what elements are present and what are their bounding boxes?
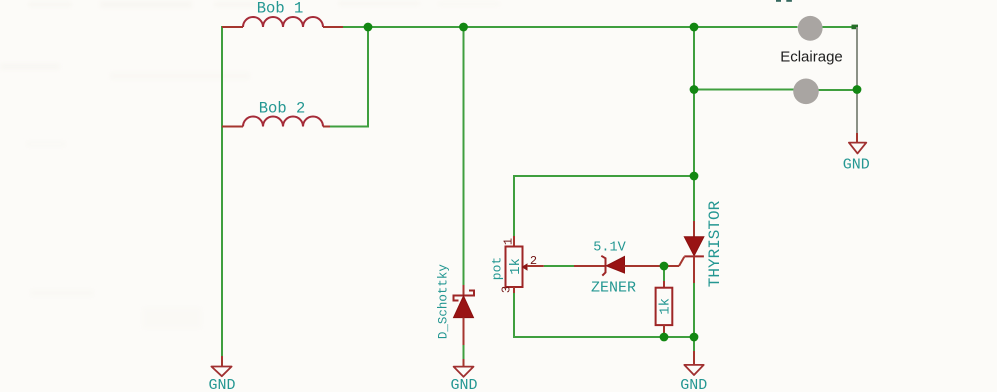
diode D_Schottky pin top (463, 285, 465, 296)
wire: top rail left segment (343, 26, 798, 28)
junction (857,89.5) (853, 85, 862, 94)
diode D_Schottky body (454, 296, 474, 318)
cut-off label fragment top (776, 0, 781, 2)
potentiometer pot pin1 (513, 236, 515, 247)
thyristor gate bend (679, 257, 684, 266)
diode ZENER cathode bar (601, 256, 605, 276)
thyristor pin bottom (693, 256, 695, 283)
ground (schottky) (454, 367, 474, 377)
thyristor cathode bar (684, 255, 704, 257)
inductor Bob2 pins (222, 126, 330, 128)
svg-text:D_Schottky: D_Schottky (437, 264, 451, 340)
GND pin (left) (221, 356, 223, 367)
thyristor pin top (693, 221, 695, 237)
faint background smudges (0, 1, 500, 329)
junction (694,176) (690, 172, 699, 181)
inductor Bob2 (243, 117, 323, 127)
svg-text:pot: pot (490, 257, 505, 280)
svg-text:2: 2 (530, 254, 537, 268)
wire: below schottky (463, 345, 465, 359)
svg-text:Bob 2: Bob 2 (259, 100, 306, 118)
junction (664,266) (660, 262, 669, 271)
wire: pot loop top rail (514, 176, 694, 236)
wire: pot wiper to zener (544, 265, 574, 267)
junction (694,89.5) (690, 85, 699, 94)
wire: Bob2 right vertical (330, 27, 368, 127)
potentiometer pot wiper arrow (522, 263, 528, 271)
wire: 1k branch (663, 266, 665, 281)
junction (694,337) (690, 333, 699, 342)
GND pin (thyristor) (693, 351, 695, 365)
svg-text:1: 1 (502, 238, 516, 245)
svg-text:5.1V: 5.1V (593, 241, 626, 256)
wire: lamp lower rail (694, 89, 794, 91)
junction (368,27) (364, 23, 373, 32)
wire: gray vertical to GND (856, 27, 858, 133)
GND pin (schottky) (463, 359, 465, 367)
svg-text:1k: 1k (508, 258, 524, 275)
wire: left vertical rail (221, 26, 223, 356)
diode ZENER body (606, 257, 624, 274)
svg-text:Eclairage: Eclairage (780, 49, 843, 66)
potentiometer pot wiper pin (527, 265, 544, 267)
wire: below thyristor (693, 283, 695, 351)
junction (463.5,27) (459, 23, 468, 32)
ground (thyristor) (684, 365, 703, 375)
wire: Schottky branch vertical (463, 27, 465, 285)
resistor 1k body (656, 288, 673, 325)
wire: top rail right of lamp (823, 26, 853, 28)
svg-text:Bob 1: Bob 1 (257, 0, 304, 18)
resistor 1k pin bottom (663, 325, 665, 337)
diode D_Schottky pin bottom (463, 318, 465, 345)
potentiometer pot body (506, 247, 523, 288)
lamp Eclairage bulb 1 (798, 16, 823, 41)
svg-text:3: 3 (500, 286, 514, 293)
svg-text:GND: GND (843, 157, 870, 174)
lamp Eclairage bulb 2 (793, 79, 819, 105)
potentiometer pot pin3 (513, 287, 515, 293)
junction (664,337) (660, 333, 669, 342)
wire: pot loop bottom rail (514, 293, 694, 337)
svg-text:THYRISTOR: THYRISTOR (706, 200, 724, 287)
svg-text:1k: 1k (658, 298, 674, 315)
wire: thyristor branch vertical top (693, 27, 695, 221)
svg-text:GND: GND (680, 377, 707, 392)
GND pin (lamp) (856, 133, 858, 143)
inductor Bob1 (243, 17, 323, 27)
svg-text:GND: GND (450, 377, 477, 392)
ground (lamp) (849, 143, 866, 154)
node: dark corner block (852, 25, 859, 30)
wire: lamp2 to right node (819, 89, 858, 91)
svg-text:ZENER: ZENER (591, 280, 636, 297)
inductor Bob1 pins (222, 26, 343, 28)
svg-text:GND: GND (208, 377, 235, 392)
junction (694,27) (690, 23, 699, 32)
ground (left) (211, 367, 231, 377)
thyristor body (684, 237, 704, 256)
diode ZENER pin left (574, 265, 606, 267)
diode ZENER pin right (625, 265, 680, 267)
diode D_Schottky cathode bar (454, 291, 475, 301)
resistor 1k pin top (663, 281, 665, 288)
